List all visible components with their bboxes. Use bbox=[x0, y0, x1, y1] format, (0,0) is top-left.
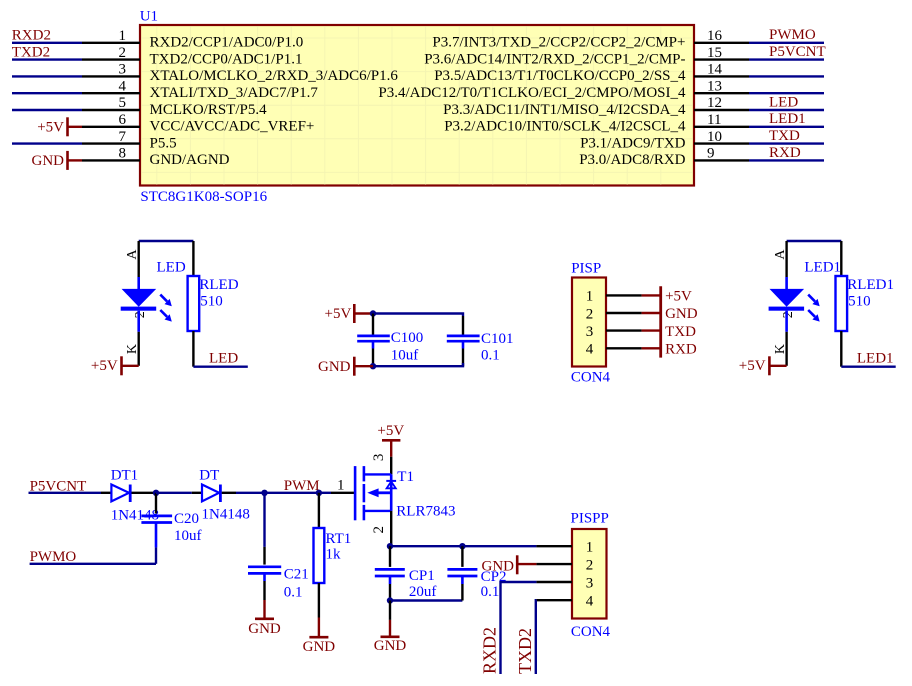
junction at T1 source / CP1 bbox=[387, 543, 393, 549]
pin 3 of T1 (drain) bbox=[390, 457, 392, 475]
wire from U1 pin 10 bbox=[749, 142, 824, 144]
capacitor CP2 bbox=[461, 546, 463, 567]
svg-text:6: 6 bbox=[119, 112, 127, 128]
svg-text:3: 3 bbox=[586, 575, 594, 591]
svg-text:510: 510 bbox=[848, 294, 871, 310]
pin 2 of U1 (left) bbox=[82, 58, 140, 60]
wire pin7 bbox=[12, 142, 82, 144]
pin 3 of PISP bbox=[606, 329, 642, 331]
svg-text:C101: C101 bbox=[481, 331, 514, 347]
svg-text:12: 12 bbox=[707, 95, 722, 111]
svg-text:15: 15 bbox=[707, 45, 722, 61]
svg-text:C100: C100 bbox=[391, 330, 424, 346]
wire PISPP pin4 to TXD2 bbox=[535, 600, 538, 674]
svg-text:LED1: LED1 bbox=[804, 260, 841, 276]
wire from U1 pin 9 bbox=[749, 159, 824, 161]
svg-text:3: 3 bbox=[371, 454, 387, 462]
junction at RT1 bbox=[316, 490, 322, 496]
pin 1 of PISP bbox=[606, 294, 642, 296]
wire pin1 bbox=[12, 42, 82, 44]
diode DT1 bbox=[101, 492, 111, 494]
svg-text:RXD: RXD bbox=[665, 342, 697, 358]
T1 body diode symbol bbox=[386, 480, 396, 482]
svg-text:GND: GND bbox=[248, 621, 281, 637]
capacitor C20 (series to PWMO) bbox=[155, 493, 157, 514]
LED LED anode pin A bbox=[137, 241, 139, 277]
svg-text:DT1: DT1 bbox=[111, 468, 139, 484]
wire CP1 bottom to CP2 bottom bbox=[390, 599, 462, 601]
grid inside U1 bbox=[141, 26, 693, 185]
svg-text:LED1: LED1 bbox=[769, 111, 806, 127]
wire top of LED bbox=[139, 240, 194, 242]
pin 4 of U1 (left) bbox=[82, 92, 140, 94]
pin 8 of U1 (left) bbox=[82, 159, 140, 161]
svg-text:CON4: CON4 bbox=[571, 370, 611, 386]
svg-text:20uf: 20uf bbox=[409, 584, 437, 600]
capacitor C100 bbox=[372, 314, 374, 335]
svg-text:RXD2/CCP1/ADC0/P1.0: RXD2/CCP1/ADC0/P1.0 bbox=[150, 35, 304, 51]
svg-text:PISP: PISP bbox=[571, 260, 601, 276]
svg-text:10uf: 10uf bbox=[174, 528, 202, 544]
svg-text:0.1: 0.1 bbox=[481, 584, 500, 600]
pin 9 of U1 (right) bbox=[694, 159, 749, 161]
svg-text:P3.7/INT3/TXD_2/CCP2/CCP2_2/CM: P3.7/INT3/TXD_2/CCP2/CCP2_2/CMP+ bbox=[432, 35, 685, 51]
svg-text:GND: GND bbox=[665, 306, 698, 322]
pin 12 of U1 (right) bbox=[694, 109, 749, 111]
svg-text:VCC/AVCC/ADC_VREF+: VCC/AVCC/ADC_VREF+ bbox=[150, 119, 315, 135]
svg-text:+5V: +5V bbox=[739, 358, 766, 374]
svg-text:LED: LED bbox=[209, 350, 238, 366]
diode DT bbox=[192, 492, 202, 494]
svg-text:1: 1 bbox=[586, 289, 594, 305]
svg-text:TXD2: TXD2 bbox=[515, 628, 535, 674]
svg-text:XTALI/TXD_3/ADC7/P1.7: XTALI/TXD_3/ADC7/P1.7 bbox=[150, 85, 319, 101]
wire from U1 pin 16 bbox=[749, 42, 824, 44]
LED LED1 cathode pin K bbox=[785, 332, 787, 366]
svg-text:P3.4/ADC12/T0/T1CLKO/ECI_2/CMP: P3.4/ADC12/T0/T1CLKO/ECI_2/CMPO/MOSI_4 bbox=[378, 85, 686, 101]
svg-text:RXD2: RXD2 bbox=[12, 28, 51, 44]
LED LED cathode pin K bbox=[137, 332, 139, 366]
svg-text:GND: GND bbox=[303, 639, 336, 655]
svg-text:TXD2/CCP0/ADC1/P1.1: TXD2/CCP0/ADC1/P1.1 bbox=[150, 51, 303, 67]
svg-text:K: K bbox=[125, 344, 140, 354]
junction at CP2 top bbox=[459, 543, 465, 549]
svg-text:3: 3 bbox=[119, 62, 127, 78]
power GND at C21 bbox=[263, 600, 265, 619]
svg-text:1: 1 bbox=[337, 477, 345, 493]
svg-text:0.1: 0.1 bbox=[284, 584, 303, 600]
svg-text:1N4148: 1N4148 bbox=[202, 506, 250, 522]
svg-text:P5.5: P5.5 bbox=[150, 135, 177, 151]
resistor RLED bbox=[192, 241, 194, 276]
power GND at RT1 bbox=[318, 618, 320, 638]
svg-text:LED: LED bbox=[769, 94, 798, 110]
wire PISPP pin3 to RXD2 bbox=[501, 582, 537, 674]
pin 13 of U1 (right) bbox=[694, 92, 749, 94]
power wire GND at PISP pin 2 bbox=[642, 312, 661, 314]
svg-text:RLED: RLED bbox=[199, 277, 238, 293]
svg-text:P5VCNT: P5VCNT bbox=[769, 44, 826, 60]
svg-text:7: 7 bbox=[119, 129, 127, 145]
power wire RXD at PISP pin 4 bbox=[642, 347, 661, 349]
svg-text:GND: GND bbox=[374, 638, 407, 654]
power wire +5V at PISP pin 1 bbox=[642, 294, 661, 296]
resistor RLED1 bbox=[840, 241, 842, 276]
svg-text:P3.5/ADC13/T1/T0CLKO/CCP0_2/SS: P3.5/ADC13/T1/T0CLKO/CCP0_2/SS_4 bbox=[434, 68, 686, 84]
pin 1 of T1 (gate) bbox=[331, 492, 354, 494]
svg-text:+5V: +5V bbox=[377, 423, 404, 439]
svg-text:CON4: CON4 bbox=[571, 624, 611, 640]
junction after DT1 bbox=[153, 490, 159, 496]
pin 6 of U1 (left) bbox=[82, 126, 140, 128]
svg-text:XTALO/MCLKO_2/RXD_3/ADC6/P1.6: XTALO/MCLKO_2/RXD_3/ADC6/P1.6 bbox=[150, 68, 399, 84]
svg-text:T1: T1 bbox=[397, 469, 414, 485]
connector PISPP body (CON4) bbox=[572, 529, 607, 619]
svg-text:8: 8 bbox=[119, 146, 127, 162]
wire from U1 pin 12 bbox=[749, 109, 824, 111]
pin 3 of PISPP bbox=[536, 581, 572, 583]
svg-text:1: 1 bbox=[586, 540, 594, 556]
svg-text:10: 10 bbox=[707, 129, 722, 145]
svg-text:GND/AGND: GND/AGND bbox=[150, 152, 230, 168]
wire P5VCNT bbox=[29, 492, 102, 494]
wire PWMO bbox=[30, 563, 156, 565]
svg-text:2: 2 bbox=[781, 311, 796, 318]
svg-text:510: 510 bbox=[200, 294, 223, 310]
capacitor C101 bbox=[462, 316, 464, 335]
pin 2 of T1 (source) bbox=[390, 511, 392, 546]
svg-text:PISPP: PISPP bbox=[571, 511, 609, 527]
svg-text:3: 3 bbox=[586, 324, 594, 340]
svg-text:C21: C21 bbox=[284, 566, 309, 582]
svg-text:TXD: TXD bbox=[665, 324, 696, 340]
svg-text:GND: GND bbox=[318, 359, 351, 375]
pin 10 of U1 (right) bbox=[694, 142, 749, 144]
svg-text:9: 9 bbox=[707, 146, 715, 162]
wire from U1 pin 14 bbox=[749, 75, 824, 77]
svg-text:RLED1: RLED1 bbox=[847, 277, 894, 293]
svg-text:0.1: 0.1 bbox=[481, 348, 500, 364]
svg-text:13: 13 bbox=[707, 78, 722, 94]
pin 4 of PISPP bbox=[536, 599, 572, 601]
svg-text:K: K bbox=[773, 344, 788, 354]
pin 1 of PISPP bbox=[536, 545, 572, 547]
svg-text:DT: DT bbox=[199, 468, 219, 484]
power GND at CP1 bbox=[389, 601, 391, 620]
svg-text:A: A bbox=[773, 249, 788, 260]
svg-text:RLR7843: RLR7843 bbox=[396, 504, 455, 520]
wire C100 bottom to C101 bottom bbox=[373, 363, 463, 366]
capacitor C21 bbox=[263, 493, 265, 547]
connector PISP body (CON4) bbox=[572, 278, 606, 367]
wire from U1 pin 11 bbox=[749, 126, 824, 128]
svg-text:TXD2: TXD2 bbox=[12, 44, 50, 60]
svg-text:2: 2 bbox=[371, 526, 387, 534]
svg-text:+5V: +5V bbox=[37, 120, 64, 136]
pin 7 of U1 (left) bbox=[82, 142, 140, 144]
wire PWM bbox=[265, 492, 319, 494]
svg-text:1: 1 bbox=[119, 28, 127, 44]
wire from U1 pin 15 bbox=[749, 58, 824, 60]
svg-text:RXD2: RXD2 bbox=[480, 627, 500, 674]
svg-text:2: 2 bbox=[133, 311, 148, 318]
svg-text:LED: LED bbox=[157, 260, 186, 276]
svg-text:4: 4 bbox=[586, 594, 594, 610]
svg-text:14: 14 bbox=[707, 62, 723, 78]
svg-text:LED1: LED1 bbox=[857, 350, 894, 366]
power bar at PISP bbox=[659, 286, 662, 357]
svg-text:MCLKO/RST/P5.4: MCLKO/RST/P5.4 bbox=[150, 102, 268, 118]
pin 2 of PISPP bbox=[536, 563, 572, 565]
LED LED1 light arrows bbox=[808, 295, 815, 302]
pin 3 of U1 (left) bbox=[82, 75, 140, 77]
resistor RT1 bbox=[318, 493, 320, 528]
wire pin3 bbox=[12, 75, 82, 77]
wire DT to PWM junction bbox=[236, 492, 265, 494]
wire T1 source to PISPP pin1 bbox=[390, 545, 536, 547]
wire top of LED1 bbox=[787, 240, 842, 242]
power wire TXD at PISP pin 3 bbox=[642, 329, 661, 331]
svg-text:2: 2 bbox=[586, 558, 594, 574]
wire pin5 bbox=[12, 109, 82, 111]
svg-text:2: 2 bbox=[119, 45, 127, 61]
LED LED symbol bbox=[137, 277, 140, 289]
pin 11 of U1 (right) bbox=[694, 126, 749, 128]
svg-text:STC8G1K08-SOP16: STC8G1K08-SOP16 bbox=[140, 189, 267, 205]
svg-text:1k: 1k bbox=[326, 546, 342, 562]
pin 16 of U1 (right) bbox=[694, 42, 749, 44]
pin 4 of PISP bbox=[606, 347, 642, 349]
junction at C100 top bbox=[370, 310, 376, 316]
svg-text:A: A bbox=[125, 249, 140, 260]
svg-text:P3.6/ADC14/INT2/RXD_2/CCP1_2/C: P3.6/ADC14/INT2/RXD_2/CCP1_2/CMP- bbox=[424, 51, 685, 67]
junction at C100 bottom bbox=[370, 363, 376, 369]
svg-text:+5V: +5V bbox=[665, 289, 692, 305]
LED LED1 anode pin A bbox=[785, 241, 787, 277]
IC U1 STC8G1K08-SOP16 body bbox=[140, 25, 694, 186]
wire pin4 bbox=[12, 92, 82, 94]
svg-text:GND: GND bbox=[482, 559, 515, 575]
wire PWM to T1 gate bbox=[319, 492, 331, 494]
svg-text:5: 5 bbox=[119, 95, 127, 111]
svg-text:P3.0/ADC8/RXD: P3.0/ADC8/RXD bbox=[579, 152, 685, 168]
svg-text:TXD: TXD bbox=[769, 128, 800, 144]
svg-text:2: 2 bbox=[586, 306, 594, 322]
wire net LED1 bbox=[841, 366, 895, 368]
junction at CP1 bottom bbox=[387, 597, 393, 603]
pin 2 of PISP bbox=[606, 312, 642, 314]
wire from U1 pin 13 bbox=[749, 92, 824, 94]
svg-text:+5V: +5V bbox=[325, 306, 352, 322]
svg-text:P3.1/ADC9/TXD: P3.1/ADC9/TXD bbox=[580, 135, 686, 151]
wire C100 top to C101 top bbox=[373, 314, 463, 317]
wire net LED bbox=[193, 366, 247, 368]
svg-text:11: 11 bbox=[707, 112, 721, 128]
LED LED1 symbol bbox=[785, 277, 788, 289]
svg-text:PWMO: PWMO bbox=[769, 27, 816, 43]
wire pin2 bbox=[12, 58, 82, 60]
LED LED light arrows bbox=[160, 295, 167, 302]
svg-text:RT1: RT1 bbox=[326, 531, 352, 547]
svg-text:PWM: PWM bbox=[284, 478, 320, 494]
pin 15 of U1 (right) bbox=[694, 58, 749, 60]
svg-text:C20: C20 bbox=[174, 511, 199, 527]
pin 14 of U1 (right) bbox=[694, 75, 749, 77]
wire DT1 to DT bbox=[156, 492, 192, 494]
junction at C21 bbox=[261, 490, 267, 496]
svg-text:4: 4 bbox=[586, 342, 594, 358]
transistor T1 RLR7843 (MOSFET) bbox=[354, 466, 357, 520]
capacitor CP1 bbox=[389, 546, 391, 567]
svg-text:10uf: 10uf bbox=[391, 348, 419, 364]
pin 1 of U1 (left) bbox=[82, 42, 140, 44]
svg-text:PWMO: PWMO bbox=[30, 549, 77, 565]
svg-text:+5V: +5V bbox=[91, 358, 118, 374]
svg-text:GND: GND bbox=[32, 153, 65, 169]
svg-text:P3.2/ADC10/INT0/SCLK_4/I2CSCL_: P3.2/ADC10/INT0/SCLK_4/I2CSCL_4 bbox=[444, 119, 686, 135]
pin 5 of U1 (left) bbox=[82, 109, 140, 111]
svg-text:4: 4 bbox=[119, 78, 127, 94]
svg-text:16: 16 bbox=[707, 28, 723, 44]
svg-text:CP1: CP1 bbox=[409, 568, 435, 584]
svg-text:RXD: RXD bbox=[769, 145, 801, 161]
svg-text:P3.3/ADC11/INT1/MISO_4/I2CSDA_: P3.3/ADC11/INT1/MISO_4/I2CSDA_4 bbox=[443, 102, 686, 118]
svg-text:U1: U1 bbox=[140, 9, 158, 25]
